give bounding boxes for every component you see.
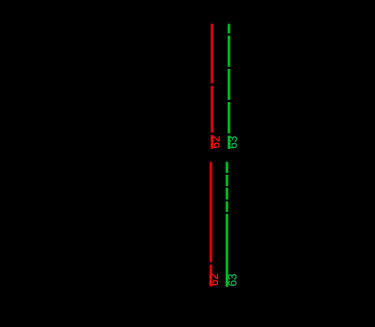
bottom panel red vline 62 [209, 162, 213, 287]
bottom panel label 62 (red, rotated) [209, 273, 221, 286]
bottom panel label 63 (green, rotated) [227, 274, 239, 287]
top panel label 62 (red, rotated) [210, 136, 222, 149]
svg-text:62: 62 [210, 136, 222, 149]
svg-text:63: 63 [227, 274, 239, 287]
line tip fades [211, 23, 229, 162]
top panel green dashed vline 63 [227, 24, 231, 149]
bottom panel green dashed vline 63 [225, 162, 229, 287]
top panel label 63 (green, rotated) [228, 136, 240, 149]
top panel red vline 62 [210, 24, 214, 149]
svg-text:63: 63 [228, 136, 240, 149]
svg-text:62: 62 [209, 273, 221, 286]
